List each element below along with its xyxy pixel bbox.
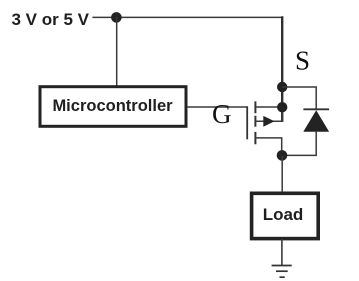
wire load to ground xyxy=(281,239,283,266)
wire drain to load xyxy=(281,155,283,192)
diode D1 branch wire top xyxy=(282,87,316,109)
transistor Q1 body stub with wire to source xyxy=(255,107,282,122)
junction dot supply/microcontroller xyxy=(111,12,122,23)
transistor Q1 channel segments xyxy=(254,101,256,144)
ground symbol xyxy=(272,266,292,278)
wire supply to microcontroller xyxy=(116,17,118,86)
transistor Q1 source stub xyxy=(255,106,282,108)
svg-text:S: S xyxy=(295,46,310,76)
diode D1 anode triangle xyxy=(303,110,329,132)
transistor Q1 body arrow (P-channel) xyxy=(263,116,274,127)
microcontroller U1 xyxy=(40,87,186,127)
diode D1 cathode bar xyxy=(303,108,329,110)
junction dot S node (diode branch) xyxy=(277,82,287,92)
svg-text:3 V or 5 V: 3 V or 5 V xyxy=(12,10,90,29)
junction dot source/body xyxy=(277,102,287,112)
junction dot drain/load xyxy=(277,150,288,161)
wire top supply rail xyxy=(92,16,281,18)
transistor Q1 drain stub xyxy=(255,138,281,156)
wire source vertical (S net) xyxy=(281,16,283,122)
diode D1 branch wire bottom xyxy=(282,131,316,155)
svg-text:G: G xyxy=(212,99,232,129)
load block xyxy=(252,193,319,238)
wire gate (microcontroller to Q1 gate) xyxy=(187,106,247,108)
transistor Q1 gate bar xyxy=(246,106,248,139)
svg-text:Microcontroller: Microcontroller xyxy=(52,97,173,115)
svg-text:Load: Load xyxy=(263,205,304,224)
